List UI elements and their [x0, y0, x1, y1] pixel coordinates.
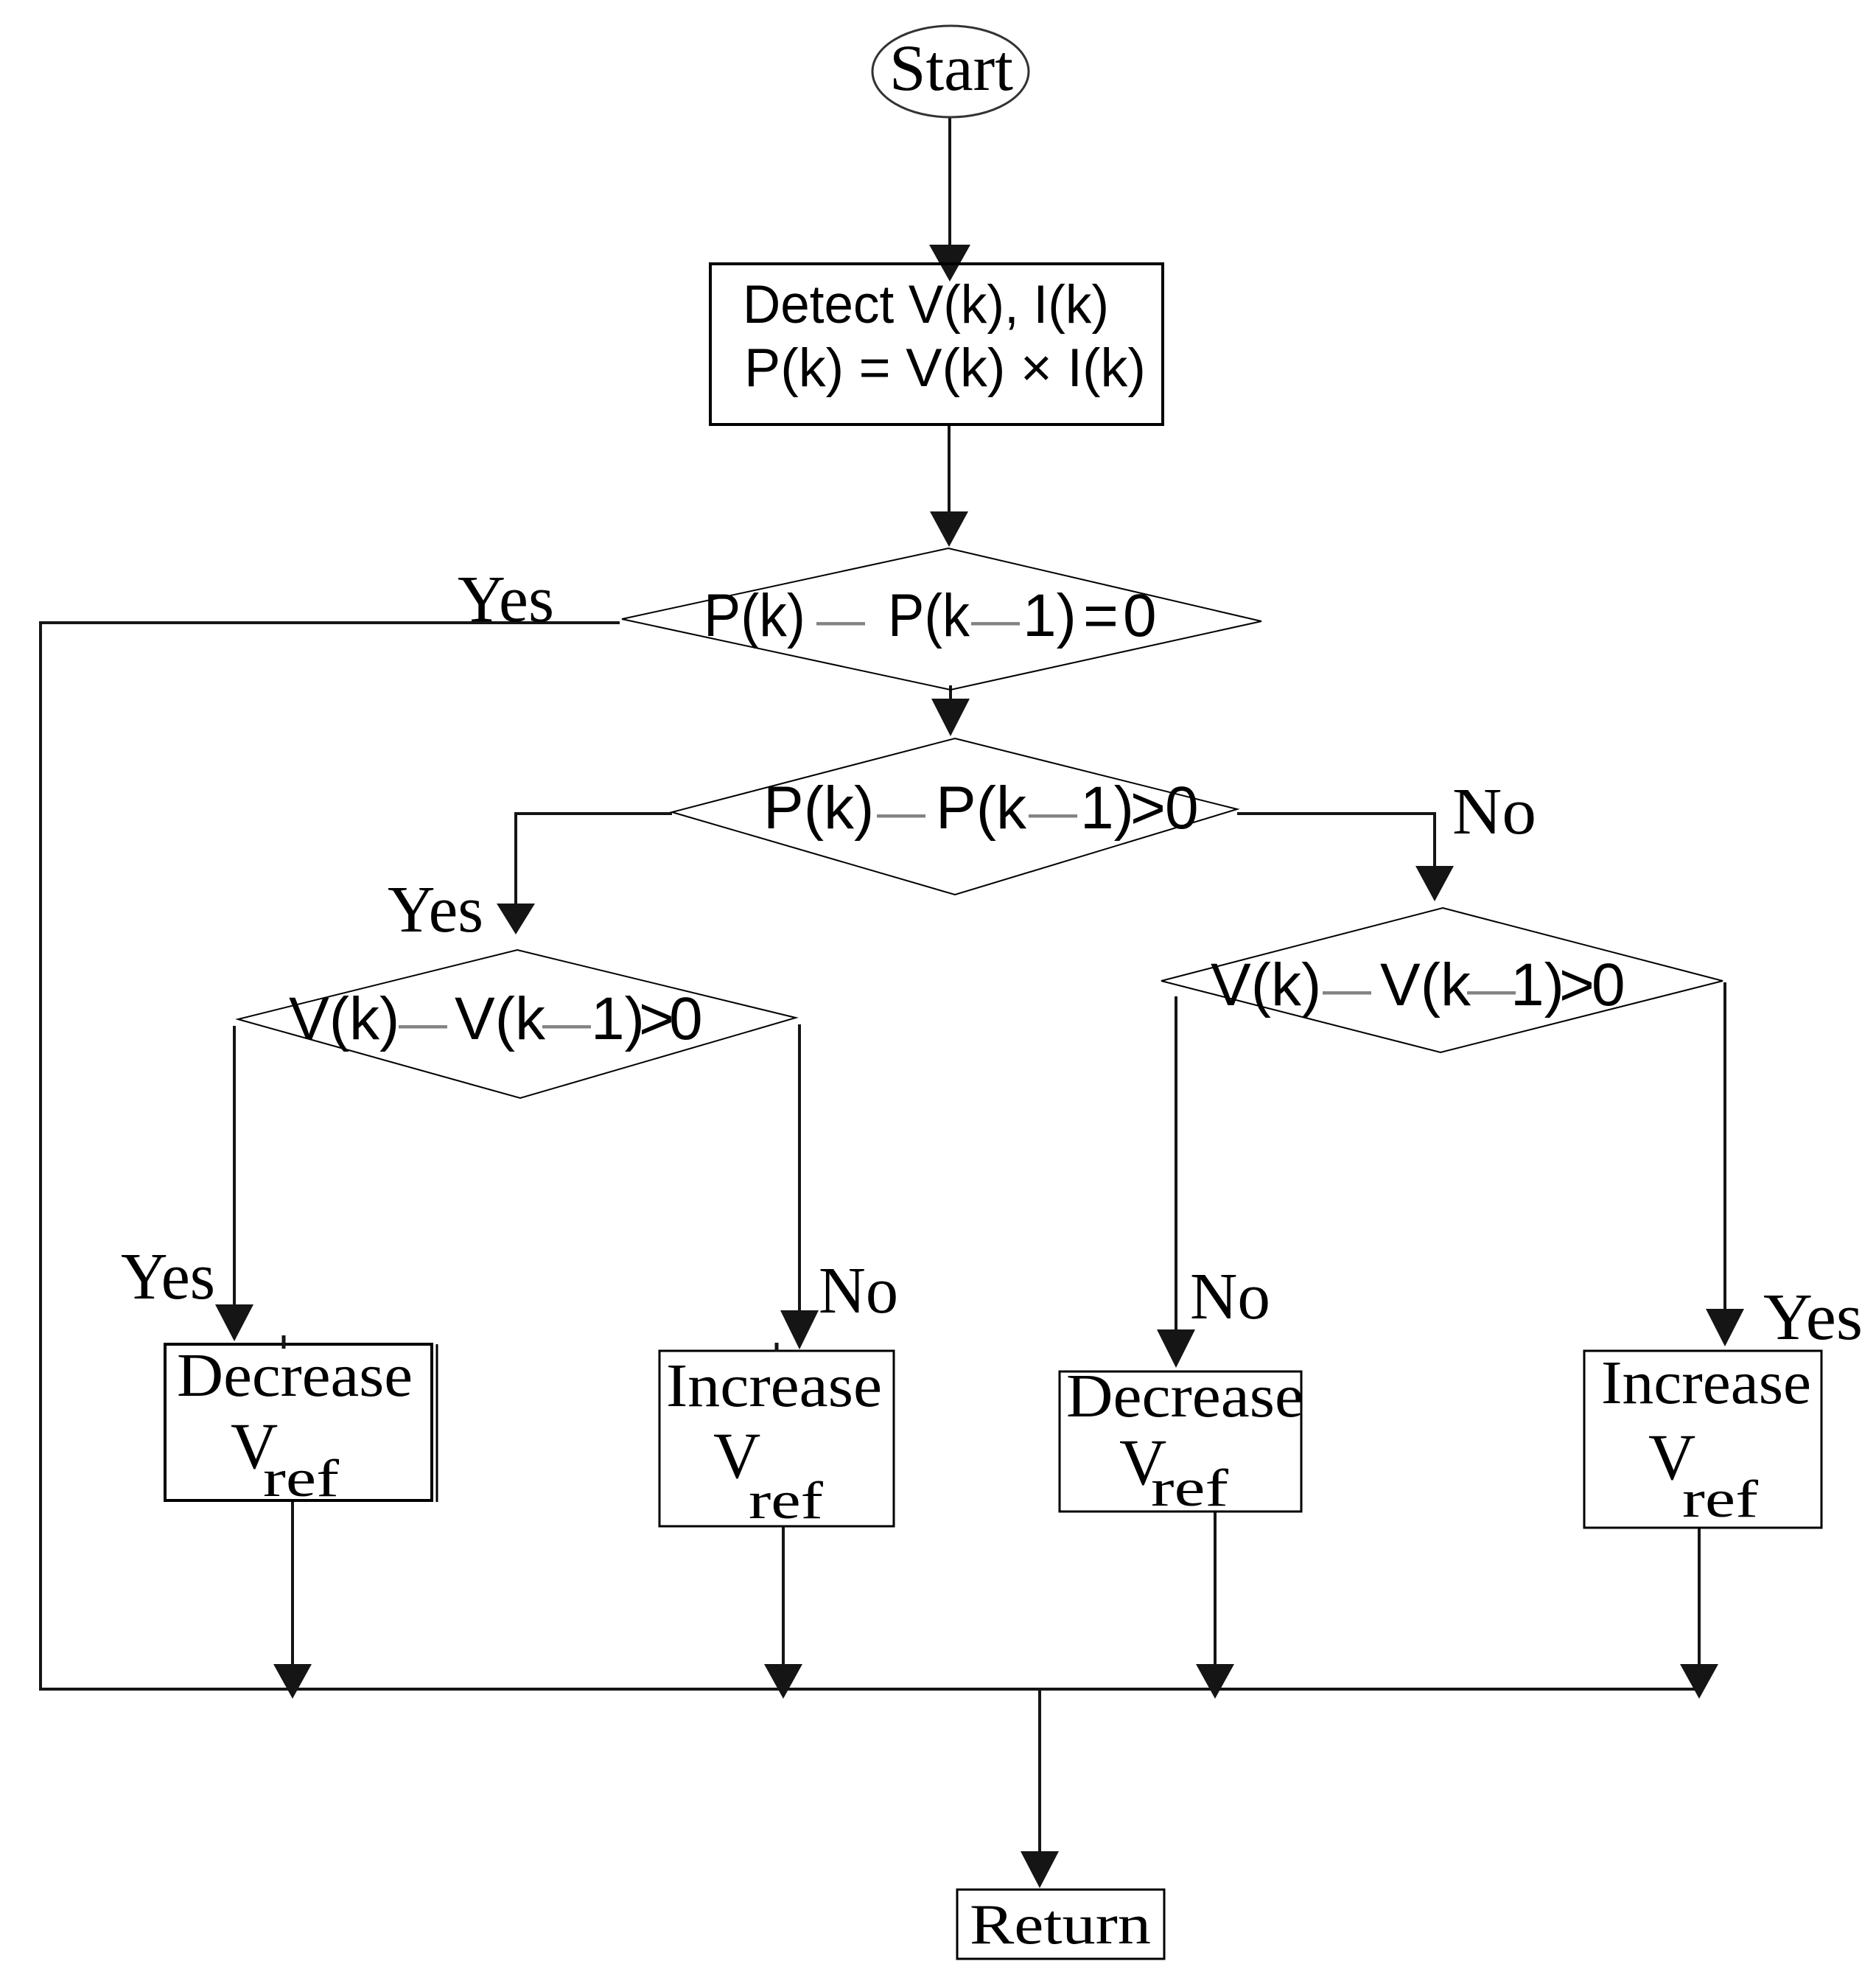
svg-text:Increase: Increase — [1601, 1349, 1811, 1417]
svg-text:Detect V(k), I(k): Detect V(k), I(k) — [743, 275, 1109, 335]
svg-text:Increase: Increase — [666, 1352, 882, 1420]
svg-text:Yes: Yes — [388, 873, 483, 946]
svg-text:Yes: Yes — [458, 563, 554, 636]
svg-text:Yes: Yes — [1763, 1281, 1863, 1354]
svg-text:P(k)—P(k—1)=0: P(k)—P(k—1)=0 — [704, 582, 1157, 649]
svg-text:No: No — [819, 1254, 898, 1327]
svg-text:Yes: Yes — [121, 1240, 215, 1313]
svg-text:Decrease: Decrease — [1066, 1362, 1303, 1430]
svg-text:No: No — [1190, 1260, 1270, 1333]
svg-text:P(k)—P(k—1)>0: P(k)—P(k—1)>0 — [763, 775, 1199, 842]
svg-text:ref: ref — [1682, 1469, 1758, 1528]
svg-text:ref: ref — [749, 1471, 823, 1530]
svg-text:V(k)—V(k—1)>0: V(k)—V(k—1)>0 — [289, 985, 703, 1052]
svg-text:No: No — [1452, 775, 1536, 848]
svg-text:Decrease: Decrease — [177, 1341, 413, 1410]
svg-text:ref: ref — [263, 1449, 339, 1508]
svg-text:Start: Start — [889, 32, 1013, 105]
svg-text:V(k)—V(k—1)>0: V(k)—V(k—1)>0 — [1211, 951, 1625, 1018]
svg-text:Return: Return — [970, 1893, 1151, 1956]
svg-text:P(k) = V(k) × I(k): P(k) = V(k) × I(k) — [744, 338, 1146, 398]
svg-text:ref: ref — [1151, 1458, 1228, 1517]
